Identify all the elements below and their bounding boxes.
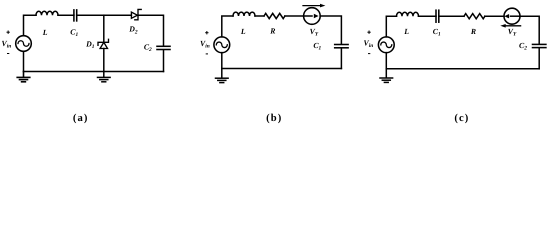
bottom rail (b) <box>222 68 342 70</box>
ground (c) <box>380 69 393 83</box>
label + (c) <box>367 31 370 34</box>
svg-text:R: R <box>269 27 275 36</box>
wire (c) VY to right corner <box>520 16 539 44</box>
resistor R (b) <box>264 13 285 18</box>
ground (b) <box>216 69 229 83</box>
ground (a) middle <box>98 72 111 82</box>
wire (c) C2 to bottom <box>538 48 540 69</box>
svg-text:(b): (b) <box>266 113 282 124</box>
resistor R (c) <box>464 14 485 19</box>
svg-text:R: R <box>470 27 476 36</box>
svg-text:L: L <box>403 27 409 36</box>
wire (b) C1 to bottom <box>340 48 342 68</box>
capacitor C2 (a) <box>157 46 170 49</box>
wire (a) C1 to D2 <box>77 14 132 16</box>
source VY (b) <box>303 4 325 25</box>
wire (b) source top to rail <box>222 16 233 37</box>
label - (c) <box>368 53 370 55</box>
inductor L (b) <box>233 12 255 16</box>
svg-text:(a): (a) <box>73 113 89 124</box>
wire (b) VY to right corner <box>320 16 341 44</box>
inductor L (a) <box>36 11 58 15</box>
label + (a) <box>7 31 10 34</box>
label - (a) <box>7 53 9 55</box>
wire (a) D1 to bottom rail <box>103 49 105 72</box>
wire (c) source bottom <box>385 53 387 69</box>
source Vin (a) <box>16 36 32 52</box>
capacitor C2 (c) <box>533 44 546 47</box>
bottom rail (c) <box>386 68 539 70</box>
source VY (c) <box>500 8 520 27</box>
wire (c) C1 to R <box>439 15 464 17</box>
diode D1 zener (a) <box>98 39 109 48</box>
capacitor C1 (b) <box>335 45 348 48</box>
svg-text:(c): (c) <box>454 113 469 124</box>
wire (a) C2 to bottom <box>163 50 165 72</box>
capacitor C1 (c) <box>436 10 439 22</box>
wire (c) R to VY <box>485 15 504 17</box>
ground (a) left <box>17 72 30 82</box>
label + (b) <box>205 31 208 34</box>
capacitor C1 (a) <box>74 10 77 21</box>
wire (a) L to C1 <box>58 14 74 16</box>
svg-text:L: L <box>42 28 48 37</box>
source Vin (c) <box>378 37 394 53</box>
source Vin (b) <box>214 37 230 53</box>
bottom rail (a) <box>24 71 164 73</box>
wire (a) D2 to right corner <box>138 15 164 46</box>
wire (b) L to R <box>255 15 264 17</box>
wire (c) L to C1 <box>419 15 437 17</box>
wire (b) source bottom <box>221 53 223 69</box>
svg-text:L: L <box>240 27 246 36</box>
wire (a) source bottom <box>23 51 25 71</box>
wire (a) source top to rail <box>24 15 37 36</box>
diode D2 zener (a) <box>131 9 141 19</box>
label - (b) <box>206 53 208 55</box>
inductor L (c) <box>397 12 419 16</box>
wire (a) D1 branch top <box>103 15 105 42</box>
wire (c) source top to rail <box>386 16 396 37</box>
wire (b) R to VY <box>285 15 304 17</box>
